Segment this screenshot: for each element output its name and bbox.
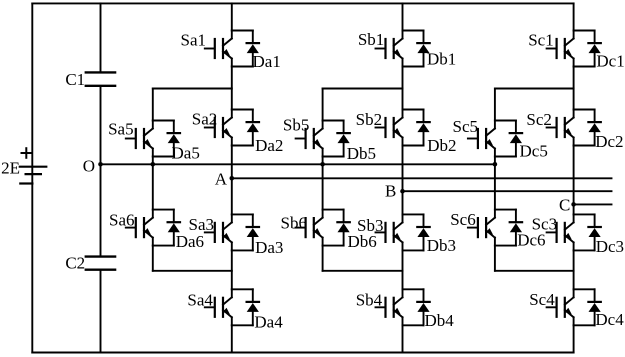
wire phase C leg top segment <box>573 3 575 30</box>
wire phase A leg top segment <box>231 3 233 30</box>
capacitor C2 <box>65 253 115 272</box>
svg-text:Dc4: Dc4 <box>595 310 624 329</box>
wire clamp branch C to neutral bus <box>494 157 496 165</box>
svg-text:Sa2: Sa2 <box>192 110 218 129</box>
svg-text:Sc2: Sc2 <box>526 110 552 129</box>
diode Db6 (freewheeling) <box>337 210 376 251</box>
wire clamp tap B34 (junction Sb3/Sb4 to clamp branch) <box>323 270 403 272</box>
wire Da3 top jog <box>232 213 253 215</box>
transistor Sc1 (IGBT) <box>528 31 573 67</box>
wire Db5 bottom jog <box>323 156 344 158</box>
wire clamp branch C lower <box>494 164 496 209</box>
transistor Sa6 (IGBT) <box>109 210 153 246</box>
diode Dc6 (freewheeling) <box>510 210 546 250</box>
node B <box>385 181 405 200</box>
wire capacitor rail lower <box>100 271 102 353</box>
wire Db1 top jog <box>403 30 424 32</box>
wire Da5 top jog <box>153 120 174 122</box>
wire phase B leg Sb1-Sb2 <box>402 67 404 110</box>
svg-text:Da3: Da3 <box>255 238 283 257</box>
diode Db1 (freewheeling) <box>417 31 456 69</box>
wire clamp branch A lower <box>152 164 154 209</box>
wire clamp branch B to junction B34 <box>322 246 324 271</box>
wire Dc6 top jog <box>495 209 516 211</box>
svg-text:C2: C2 <box>65 253 85 272</box>
svg-text:C1: C1 <box>65 70 85 89</box>
wire phase A leg Sa2-Sa3 <box>231 146 233 215</box>
svg-text:Da4: Da4 <box>254 312 283 331</box>
node clamp B / O junction <box>320 162 325 167</box>
diode Db4 (freewheeling) <box>417 289 454 330</box>
wire phase B leg Sb3-Sb4 <box>402 250 404 289</box>
svg-text:Sc1: Sc1 <box>528 31 554 50</box>
svg-text:Db6: Db6 <box>348 232 377 251</box>
transistor Sb1 (IGBT) <box>358 30 403 67</box>
wire left source rail <box>31 3 33 352</box>
wire clamp branch A to neutral bus <box>152 157 154 165</box>
svg-text:Da6: Da6 <box>176 232 204 251</box>
node clamp C / O junction <box>493 162 498 167</box>
wire Db4 top jog <box>403 288 424 290</box>
svg-text:Sb4: Sb4 <box>356 291 383 310</box>
wire bottom DC bus <box>32 352 573 354</box>
wire Da1 bottom jog <box>232 66 253 68</box>
wire clamp tap A12 (junction Sa1/Sa2 to clamp branch) <box>153 88 232 90</box>
svg-text:Db5: Db5 <box>347 144 376 163</box>
transistor Sb5 (IGBT) <box>283 116 323 157</box>
wire Db6 top jog <box>323 209 344 211</box>
transistor Sb4 (IGBT) <box>356 289 403 325</box>
diode Da4 (freewheeling) <box>247 289 284 331</box>
diode Da3 (freewheeling) <box>247 214 284 256</box>
wire clamp branch B upper <box>322 89 324 121</box>
svg-text:Dc1: Dc1 <box>596 51 624 70</box>
wire Dc3 bottom jog <box>574 249 595 251</box>
transistor Sa4 (IGBT) <box>187 289 231 325</box>
wire clamp branch B to neutral bus <box>322 157 324 165</box>
wire clamp tap A34 (junction Sa3/Sa4 to clamp branch) <box>153 270 232 272</box>
wire Da4 bottom jog <box>232 324 253 326</box>
wire Db5 top jog <box>323 120 344 122</box>
wire phase B leg Sb2-Sb3 <box>402 146 404 215</box>
diode Dc1 (freewheeling) <box>588 31 624 71</box>
transistor Sc6 (IGBT) <box>450 210 495 246</box>
svg-text:Da2: Da2 <box>255 136 283 155</box>
wire Dc5 top jog <box>495 120 516 122</box>
wire Da6 top jog <box>153 209 174 211</box>
svg-text:Db1: Db1 <box>427 50 456 69</box>
wire Dc1 top jog <box>574 30 595 32</box>
diode Dc4 (freewheeling) <box>588 289 624 329</box>
wire phase A leg bottom segment <box>231 325 233 352</box>
wire Db3 bottom jog <box>403 249 424 251</box>
svg-text:Db2: Db2 <box>427 136 456 155</box>
svg-text:Sa6: Sa6 <box>109 210 135 229</box>
wire Da5 bottom jog <box>153 156 174 158</box>
svg-text:Dc5: Dc5 <box>520 142 548 161</box>
diode Da5 (freewheeling) <box>168 121 200 163</box>
wire Dc3 top jog <box>574 213 595 215</box>
wire Db2 bottom jog <box>403 145 424 147</box>
wire Da3 bottom jog <box>232 249 253 251</box>
diode Da1 (freewheeling) <box>247 31 281 72</box>
wire clamp branch C upper <box>494 89 496 121</box>
svg-text:B: B <box>385 181 396 200</box>
wire capacitor rail middle <box>100 87 102 256</box>
diode Db3 (freewheeling) <box>417 214 456 255</box>
wire clamp branch B lower <box>322 164 324 209</box>
transistor Sa2 (IGBT) <box>192 110 232 146</box>
wire clamp branch C to junction C34 <box>494 246 496 271</box>
svg-text:Sb5: Sb5 <box>283 116 309 135</box>
diode Dc5 (freewheeling) <box>510 121 548 161</box>
svg-text:Sa1: Sa1 <box>181 30 207 49</box>
svg-text:Dc3: Dc3 <box>596 237 624 256</box>
wire Db2 top jog <box>403 109 424 111</box>
battery 2E <box>1 148 46 183</box>
wire Db1 bottom jog <box>403 66 424 68</box>
wire phase A output line <box>232 177 612 179</box>
wire Dc1 bottom jog <box>574 66 595 68</box>
wire Da2 top jog <box>232 109 253 111</box>
node O <box>83 156 103 175</box>
wire clamp branch A to junction A34 <box>152 246 154 271</box>
wire clamp branch A upper <box>152 89 154 121</box>
svg-text:C: C <box>559 195 570 214</box>
wire phase B leg bottom segment <box>402 325 404 352</box>
wire clamp tap C34 (junction Sc3/Sc4 to clamp branch) <box>495 270 574 272</box>
wire Da2 bottom jog <box>232 145 253 147</box>
diode Da6 (freewheeling) <box>168 210 204 251</box>
wire Dc2 top jog <box>574 109 595 111</box>
wire capacitor rail upper <box>100 3 102 71</box>
diode Dc3 (freewheeling) <box>588 214 624 256</box>
wire phase C leg Sc1-Sc2 <box>573 67 575 110</box>
wire Db4 bottom jog <box>403 324 424 326</box>
node clamp A / O junction <box>151 162 156 167</box>
svg-text:Sb6: Sb6 <box>281 214 307 233</box>
wire phase A leg Sa3-Sa4 <box>231 250 233 289</box>
wire neutral bus O <box>101 163 495 165</box>
wire Dc2 bottom jog <box>574 145 595 147</box>
svg-text:Sa4: Sa4 <box>187 290 213 309</box>
wire Dc4 top jog <box>574 288 595 290</box>
diode Db5 (freewheeling) <box>337 121 376 163</box>
svg-text:Db4: Db4 <box>425 311 455 330</box>
wire Db6 bottom jog <box>323 245 344 247</box>
svg-text:Sa5: Sa5 <box>108 120 134 139</box>
svg-text:Sb2: Sb2 <box>356 110 382 129</box>
transistor Sc3 (IGBT) <box>532 214 574 250</box>
svg-text:2E: 2E <box>1 159 20 178</box>
wire Db3 top jog <box>403 213 424 215</box>
wire phase C leg bottom segment <box>573 325 575 352</box>
transistor Sb3 (IGBT) <box>357 214 402 250</box>
wire phase B output line <box>403 190 612 192</box>
svg-text:O: O <box>83 156 95 175</box>
transistor Sa3 (IGBT) <box>189 214 232 250</box>
svg-text:Db3: Db3 <box>427 236 456 255</box>
wire Da1 top jog <box>232 30 253 32</box>
wire phase C leg Sc3-Sc4 <box>573 250 575 289</box>
wire top DC bus <box>32 2 573 4</box>
transistor Sb2 (IGBT) <box>356 110 403 146</box>
transistor Sa5 (IGBT) <box>108 120 153 157</box>
svg-text:Sc4: Sc4 <box>529 290 555 309</box>
svg-text:Dc6: Dc6 <box>517 231 545 250</box>
wire phase C output line <box>574 203 612 205</box>
wire Da4 top jog <box>232 288 253 290</box>
wire Dc5 bottom jog <box>495 156 516 158</box>
wire clamp tap C12 (junction Sc1/Sc2 to clamp branch) <box>495 88 574 90</box>
svg-text:Dc2: Dc2 <box>595 132 623 151</box>
svg-text:Da5: Da5 <box>172 144 200 163</box>
node C <box>559 195 576 214</box>
transistor Sc2 (IGBT) <box>526 110 573 146</box>
wire Dc6 bottom jog <box>495 245 516 247</box>
wire clamp tap B12 (junction Sb1/Sb2 to clamp branch) <box>323 88 403 90</box>
wire phase B leg top segment <box>402 3 404 30</box>
node A <box>215 170 234 189</box>
diode Db2 (freewheeling) <box>417 110 456 156</box>
svg-text:Sc6: Sc6 <box>450 210 476 229</box>
capacitor C1 <box>65 70 115 89</box>
diode Dc2 (freewheeling) <box>588 110 623 152</box>
transistor Sb6 (IGBT) <box>281 210 323 246</box>
transistor Sc5 (IGBT) <box>453 117 495 157</box>
diode Da2 (freewheeling) <box>247 110 284 156</box>
wire phase A leg Sa1-Sa2 <box>231 67 233 110</box>
wire Dc4 bottom jog <box>574 324 595 326</box>
wire Da6 bottom jog <box>153 245 174 247</box>
transistor Sc4 (IGBT) <box>529 289 573 325</box>
svg-text:Sc5: Sc5 <box>453 117 479 136</box>
svg-text:A: A <box>215 170 228 189</box>
wire phase C leg Sc2-Sc3 <box>573 146 575 215</box>
transistor Sa1 (IGBT) <box>181 30 232 66</box>
svg-text:Da1: Da1 <box>253 52 281 71</box>
svg-text:Sb1: Sb1 <box>358 30 384 49</box>
